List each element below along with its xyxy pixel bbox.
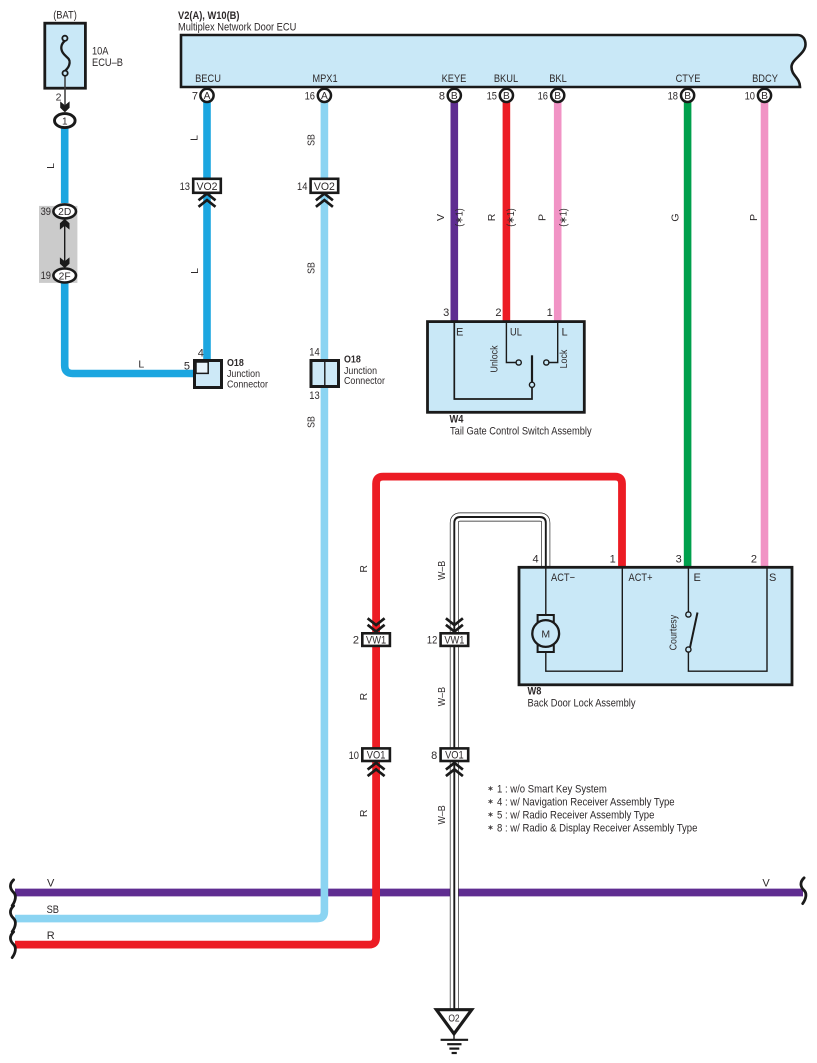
svg-text:R: R [358, 809, 370, 817]
svg-text:R: R [47, 930, 55, 942]
svg-text:16: 16 [305, 91, 315, 103]
svg-text:W4: W4 [450, 414, 465, 426]
svg-text:(∗1): (∗1) [454, 208, 466, 227]
svg-text:A: A [321, 91, 328, 102]
svg-text:19: 19 [41, 270, 51, 282]
svg-text:V2(A), W10(B): V2(A), W10(B) [178, 10, 240, 22]
svg-text:VW1: VW1 [444, 635, 464, 647]
svg-text:VO2: VO2 [314, 181, 335, 193]
svg-text:SB: SB [306, 134, 318, 146]
svg-text:5 : w/ Radio Receiver Assembly: 5 : w/ Radio Receiver Assembly Type [497, 810, 654, 822]
svg-text:KEYE: KEYE [442, 73, 467, 85]
svg-text:(∗1): (∗1) [505, 208, 517, 227]
svg-text:7: 7 [192, 91, 198, 103]
svg-text:13: 13 [309, 390, 319, 402]
svg-text:B: B [451, 91, 458, 102]
svg-text:12: 12 [427, 635, 437, 647]
svg-text:ACT+: ACT+ [629, 572, 653, 584]
svg-text:MPX1: MPX1 [312, 73, 337, 85]
svg-text:Courtesy: Courtesy [667, 614, 679, 650]
svg-text:V: V [762, 878, 770, 890]
svg-text:1: 1 [62, 116, 68, 127]
svg-text:SB: SB [306, 262, 318, 274]
svg-text:W–B: W–B [436, 805, 448, 824]
svg-text:UL: UL [510, 327, 522, 339]
svg-text:15: 15 [487, 91, 497, 103]
svg-text:(BAT): (BAT) [53, 10, 77, 22]
svg-text:Back Door Lock Assembly: Back Door Lock Assembly [528, 698, 636, 710]
svg-text:L: L [138, 359, 144, 371]
svg-text:Lock: Lock [558, 349, 570, 368]
svg-text:G: G [670, 213, 682, 221]
svg-text:5: 5 [184, 361, 190, 373]
svg-text:10A: 10A [92, 46, 109, 58]
svg-text:BKL: BKL [549, 73, 567, 85]
svg-text:L: L [189, 135, 201, 141]
svg-text:B: B [503, 91, 510, 102]
svg-text:3: 3 [443, 307, 449, 319]
svg-text:E: E [694, 572, 701, 584]
svg-text:V: V [47, 878, 55, 890]
svg-text:2: 2 [495, 307, 501, 319]
svg-text:ECU–B: ECU–B [92, 57, 123, 69]
svg-text:O2: O2 [448, 1014, 460, 1025]
svg-text:39: 39 [41, 206, 51, 218]
svg-text:VO2: VO2 [197, 181, 218, 193]
svg-text:1: 1 [547, 307, 553, 319]
svg-text:S: S [769, 572, 776, 584]
svg-text:Connector: Connector [344, 375, 385, 387]
svg-text:L: L [189, 268, 201, 274]
svg-text:M: M [541, 628, 550, 640]
svg-text:8: 8 [439, 91, 445, 103]
svg-text:P: P [536, 214, 548, 221]
svg-text:4 : w/ Navigation Receiver Ass: 4 : w/ Navigation Receiver Assembly Type [497, 797, 675, 809]
svg-text:ACT−: ACT− [551, 572, 575, 584]
svg-text:VO1: VO1 [367, 750, 386, 762]
svg-text:A: A [204, 91, 211, 102]
svg-text:18: 18 [668, 91, 678, 103]
svg-text:14: 14 [297, 181, 307, 193]
svg-text:2: 2 [751, 554, 757, 566]
svg-text:4: 4 [532, 554, 538, 566]
svg-text:10: 10 [349, 750, 359, 762]
svg-text:W–B: W–B [436, 561, 448, 580]
svg-text:L: L [562, 327, 568, 339]
svg-text:SB: SB [47, 904, 59, 916]
svg-text:L: L [45, 163, 57, 169]
svg-text:1: 1 [610, 554, 616, 566]
svg-text:P: P [748, 214, 760, 221]
svg-text:B: B [554, 91, 561, 102]
svg-text:1 : w/o Smart Key System: 1 : w/o Smart Key System [497, 784, 607, 796]
svg-text:Unlock: Unlock [488, 345, 500, 373]
svg-text:R: R [358, 565, 370, 573]
svg-text:B: B [761, 91, 768, 102]
svg-text:R: R [486, 213, 498, 221]
svg-text:B: B [684, 91, 691, 102]
svg-text:8 : w/ Radio & Display Receive: 8 : w/ Radio & Display Receiver Assembly… [497, 823, 697, 835]
svg-text:SB: SB [306, 416, 318, 428]
svg-text:4: 4 [198, 348, 204, 360]
svg-text:10: 10 [745, 91, 755, 103]
svg-text:BKUL: BKUL [494, 73, 518, 85]
svg-text:BDCY: BDCY [752, 73, 778, 85]
svg-text:O18: O18 [344, 354, 361, 366]
svg-text:8: 8 [431, 750, 437, 762]
svg-text:2F: 2F [59, 271, 71, 282]
svg-text:W–B: W–B [436, 687, 448, 706]
svg-text:CTYE: CTYE [676, 73, 701, 85]
svg-text:W8: W8 [528, 686, 542, 698]
svg-text:BECU: BECU [195, 73, 221, 85]
svg-text:2: 2 [56, 92, 62, 104]
svg-text:2D: 2D [58, 207, 71, 218]
svg-text:14: 14 [309, 347, 319, 359]
svg-text:R: R [358, 692, 370, 700]
svg-text:13: 13 [180, 181, 190, 193]
svg-text:Connector: Connector [227, 379, 268, 391]
svg-text:16: 16 [538, 91, 548, 103]
svg-text:Tail Gate Control Switch Assem: Tail Gate Control Switch Assembly [450, 426, 592, 438]
svg-text:Multiplex Network Door ECU: Multiplex Network Door ECU [178, 22, 296, 34]
svg-text:2: 2 [353, 635, 359, 647]
svg-text:3: 3 [676, 554, 682, 566]
svg-text:VW1: VW1 [366, 635, 386, 647]
svg-text:VO1: VO1 [445, 750, 464, 762]
svg-text:(∗1): (∗1) [557, 208, 569, 227]
svg-text:V: V [435, 214, 447, 221]
svg-text:E: E [456, 327, 463, 339]
